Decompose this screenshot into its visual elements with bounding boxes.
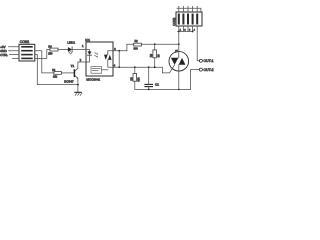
wire CON1 pin4 staircase to R4 xyxy=(35,50,50,59)
wire CON2 top pins and bus xyxy=(177,6,201,12)
wire CON1 left pin stubs xyxy=(9,47,20,59)
wire OUT-2 to bottom rail xyxy=(191,70,200,90)
svg-text:OUT-1: OUT-1 xyxy=(204,59,214,63)
IC1 internal triac detector xyxy=(104,51,113,67)
wire R1 to T1 base xyxy=(61,72,74,74)
optocoupler IC1 xyxy=(86,42,113,76)
svg-text:BC547: BC547 xyxy=(64,80,74,84)
node junction R3 bottom xyxy=(154,66,156,68)
node junction bus right xyxy=(192,31,194,33)
resistor R2 xyxy=(134,43,142,46)
capacitor C1 xyxy=(145,67,153,89)
svg-text:10k: 10k xyxy=(53,76,58,79)
transistor T1 xyxy=(74,62,78,92)
IC1 zero-cross circuit box xyxy=(91,67,108,74)
node junction C1 top xyxy=(148,66,150,68)
svg-text:150: 150 xyxy=(48,53,53,56)
node junction R5 top xyxy=(134,66,136,68)
node junction MT2 xyxy=(178,43,180,45)
svg-text:MOC3041: MOC3041 xyxy=(86,77,100,81)
resistor R5 xyxy=(133,67,137,89)
terminal OUT-2 xyxy=(199,68,202,71)
wire R2 to triac MT2 node xyxy=(141,43,178,45)
wire bottom rail xyxy=(135,88,191,90)
wire CON1 pin3 to ground rail xyxy=(35,55,78,85)
wire CON2 pin5 to OUT-1 xyxy=(197,26,199,61)
svg-text:CON1: CON1 xyxy=(20,40,30,44)
svg-text:LED1: LED1 xyxy=(67,40,75,44)
svg-text:CON2: CON2 xyxy=(172,17,176,25)
connector CON2 xyxy=(176,12,202,26)
LED LED1 xyxy=(68,47,72,54)
wire R4 to LED1 xyxy=(58,49,68,51)
wire LED1 to IC1 pin1 xyxy=(72,49,86,51)
svg-text:C1: C1 xyxy=(155,82,159,86)
IC1 internal LED xyxy=(86,50,92,63)
node junction MT1 rail xyxy=(178,89,180,91)
svg-text:OUT-2: OUT-2 xyxy=(204,68,214,72)
wire CON2 bus to MT2 node xyxy=(178,32,180,45)
svg-text:1: 1 xyxy=(82,45,84,48)
svg-text:CTRL: CTRL xyxy=(0,53,8,57)
resistor R1 xyxy=(54,72,62,75)
svg-text:T2: T2 xyxy=(175,49,178,53)
wire T1 collector to IC1 pin2 xyxy=(78,61,86,63)
svg-text:T1: T1 xyxy=(71,64,75,68)
resistor R3 xyxy=(153,44,157,67)
node junction R3 top xyxy=(154,43,156,45)
svg-text:IC1: IC1 xyxy=(85,38,90,42)
svg-text:4: 4 xyxy=(194,29,196,31)
wire IC1 pin4 to triac gate xyxy=(113,65,175,73)
wire CON1 pin2 to R1 xyxy=(35,51,54,73)
ground xyxy=(75,92,82,95)
connector CON1 xyxy=(19,44,35,61)
node junction emitter and ground rail xyxy=(77,84,79,86)
resistor R4 xyxy=(50,48,58,51)
svg-text:R2: R2 xyxy=(135,40,139,43)
svg-text:39: 39 xyxy=(158,54,161,57)
svg-text:3: 3 xyxy=(189,29,191,31)
svg-text:330: 330 xyxy=(138,77,141,82)
wire CON2 bottom pins and bus xyxy=(178,26,193,32)
svg-text:2: 2 xyxy=(184,29,186,31)
node junction C1 bottom xyxy=(148,89,150,91)
triac T2 xyxy=(169,44,189,89)
wire IC1 pin6 to R2 xyxy=(113,44,134,51)
node junction bus left xyxy=(178,31,180,33)
node junction pin6 xyxy=(118,50,120,52)
IC1 internal light arrows xyxy=(95,53,98,58)
wire junction pin6 to pin4 xyxy=(118,51,120,67)
node junction pin4 xyxy=(118,66,120,68)
svg-text:360: 360 xyxy=(134,47,139,50)
terminal OUT-1 xyxy=(199,59,202,62)
svg-text:1: 1 xyxy=(180,29,182,31)
